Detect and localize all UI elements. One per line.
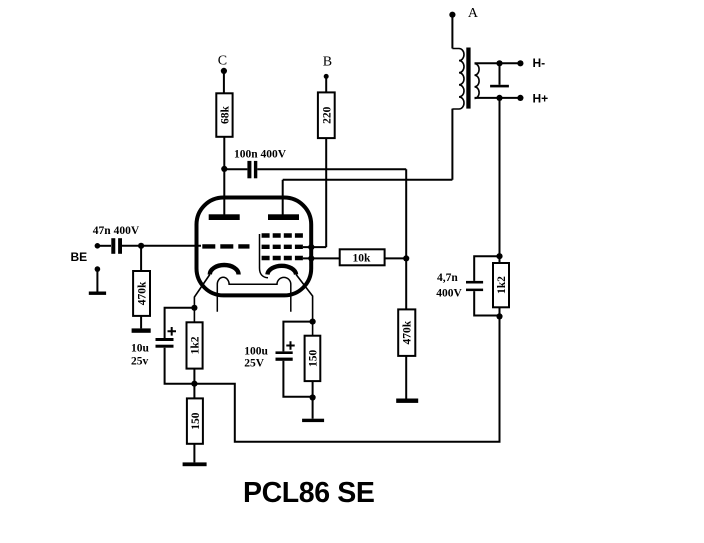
- valve U1 PCL86 envelope: [197, 198, 312, 296]
- svg-text:470k: 470k: [402, 320, 414, 344]
- capacitor C4 100u plates: [276, 351, 293, 354]
- resistor R7 470k right: [398, 309, 415, 356]
- svg-text:H-: H-: [533, 56, 546, 70]
- plus sign 100u: [286, 341, 294, 350]
- wire secondary top to H-: [475, 62, 521, 64]
- wire pentode control grid to 10k: [303, 257, 340, 259]
- ground bar at H-: [490, 85, 509, 88]
- junction dot 47n / 470k: [138, 243, 144, 249]
- node A terminal dot: [449, 12, 455, 18]
- resistor R2 220: [318, 92, 335, 138]
- wire 47n to triode grid: [122, 245, 201, 247]
- wire 100n right to grid rail: [257, 168, 406, 170]
- wire 1k2 to 150: [193, 369, 195, 399]
- junction dot control grid at envelope: [308, 255, 314, 261]
- ground bar below 150 right: [302, 419, 324, 422]
- svg-text:C: C: [218, 53, 227, 68]
- node B terminal dot: [324, 74, 329, 79]
- capacitor C3 10u plates: [156, 338, 174, 341]
- svg-text:A: A: [468, 6, 479, 21]
- svg-text:PCL86 SE: PCL86 SE: [243, 477, 374, 509]
- wire 150 left to ground: [193, 444, 195, 463]
- capacitor C5 4,7n plates: [466, 281, 483, 284]
- input ground terminal dot: [95, 266, 101, 272]
- junction dot 150 right bottom: [310, 394, 316, 400]
- triode grid dashes: [202, 244, 249, 248]
- resistor R3 470k left: [133, 271, 150, 316]
- resistor R1 68k: [216, 93, 232, 137]
- svg-text:H+: H+: [533, 92, 549, 106]
- svg-text:BE: BE: [71, 250, 88, 264]
- wire feedback from cathode to right rail: [194, 316, 499, 441]
- svg-text:470k: 470k: [137, 281, 149, 305]
- resistor R6 10k: [340, 249, 385, 265]
- svg-text:100n 400V: 100n 400V: [234, 148, 287, 160]
- transformer T1 primary winding: [452, 49, 464, 109]
- wire pentode anode lead: [282, 180, 284, 216]
- resistor R5 150 left: [187, 398, 203, 443]
- pentode control grid g1 dashes: [262, 256, 303, 260]
- g3 to cathode tie wire: [260, 234, 269, 278]
- pentode cathode arc: [267, 266, 296, 275]
- svg-text:400V: 400V: [436, 287, 462, 299]
- junction dot H+ rail: [496, 95, 502, 101]
- wire 150 right bottom: [312, 381, 314, 397]
- svg-text:100u: 100u: [244, 346, 268, 358]
- wire 470k right to ground: [405, 356, 407, 399]
- junction dot H- rail: [496, 60, 502, 66]
- wire 470k left top lead: [140, 246, 142, 271]
- wire 10u bottom to 1k2 bottom: [165, 348, 195, 384]
- wire 1k2 right bottom lead: [499, 307, 501, 316]
- wire H+ rail down right side: [499, 98, 501, 263]
- resistor R9 1k2 right: [493, 263, 509, 307]
- svg-text:1k2: 1k2: [190, 336, 202, 354]
- svg-text:1k2: 1k2: [496, 276, 508, 294]
- svg-text:150: 150: [307, 350, 319, 368]
- wire 100n left: [224, 168, 247, 170]
- wire primary bottom down to OPT feed: [451, 109, 453, 180]
- junction dot triode cathode: [191, 305, 197, 311]
- plus sign 10u: [168, 327, 177, 336]
- junction dot pentode cathode: [310, 319, 316, 325]
- svg-text:B: B: [323, 54, 332, 69]
- svg-text:68k: 68k: [219, 105, 231, 124]
- junction dot right rail bottom: [496, 313, 502, 319]
- resistor R4 1k2 left: [187, 322, 203, 368]
- wire screen grid link: [303, 246, 326, 248]
- triode cathode arc: [210, 265, 239, 275]
- wire A to transformer primary top: [451, 16, 453, 49]
- pentode cathode lead: [296, 275, 313, 336]
- wire 68k to triode anode: [223, 137, 225, 216]
- junction dot screen grid at envelope: [308, 244, 314, 250]
- pentode anode plate: [268, 214, 299, 220]
- pentode suppressor grid g3 dashes: [262, 233, 303, 237]
- wire B to 220: [325, 78, 327, 93]
- wire input ground lead: [96, 269, 98, 291]
- svg-text:220: 220: [321, 106, 333, 124]
- svg-text:47n 400V: 47n 400V: [93, 225, 140, 237]
- wire 100u bottom to 150 bottom: [283, 361, 312, 397]
- junction dot triode anode / 100n: [221, 166, 227, 172]
- wire 4,7n top branch: [474, 256, 499, 281]
- triode cathode lead: [194, 275, 209, 323]
- junction dot 10k right: [403, 255, 409, 261]
- wire C to 68k: [223, 72, 225, 93]
- heater filament: [217, 277, 290, 312]
- wire input to 47n: [97, 245, 111, 247]
- node C terminal dot: [221, 68, 227, 74]
- wire 220 down to screen grid: [325, 138, 327, 247]
- wire OPT feed horizontal to pentode anode: [283, 179, 453, 181]
- svg-text:10k: 10k: [353, 253, 372, 265]
- svg-text:150: 150: [190, 412, 202, 430]
- capacitor C1 47n plates: [111, 238, 115, 254]
- junction dot 1k2 bottom: [191, 381, 197, 387]
- wire to ground below 150 right: [312, 398, 314, 419]
- wire 4,7n bottom branch: [474, 291, 499, 315]
- svg-text:25v: 25v: [131, 356, 149, 368]
- wire secondary bottom to H+: [475, 97, 521, 99]
- terminal dot H-: [517, 60, 523, 66]
- transformer T1 core: [466, 48, 470, 109]
- wire grid rail down to 470k: [405, 169, 407, 309]
- input terminal dot BE: [95, 243, 101, 249]
- ground bar below 150 left: [183, 462, 207, 466]
- junction dot right rail top: [496, 253, 502, 259]
- wire pentode cathode to 100u top: [283, 322, 312, 352]
- wire cathode to 10u top: [165, 308, 195, 338]
- svg-text:25V: 25V: [244, 358, 265, 370]
- capacitor C2 100n plates: [247, 161, 251, 178]
- ground bar at input: [89, 292, 106, 295]
- wire H- to ground: [499, 63, 501, 85]
- transformer T1 secondary winding: [475, 64, 480, 99]
- pentode screen grid g2 dashes: [262, 245, 303, 249]
- terminal dot H+: [517, 95, 523, 101]
- ground bar below 470k left: [132, 328, 151, 332]
- triode anode plate: [209, 214, 240, 220]
- svg-text:4,7n: 4,7n: [437, 272, 458, 284]
- wire 10k to grid rail: [385, 257, 407, 259]
- ground bar below 470k right: [396, 399, 418, 403]
- resistor R8 150 right: [305, 336, 321, 381]
- wire 470k left to ground: [140, 316, 142, 329]
- svg-text:10u: 10u: [131, 343, 150, 355]
